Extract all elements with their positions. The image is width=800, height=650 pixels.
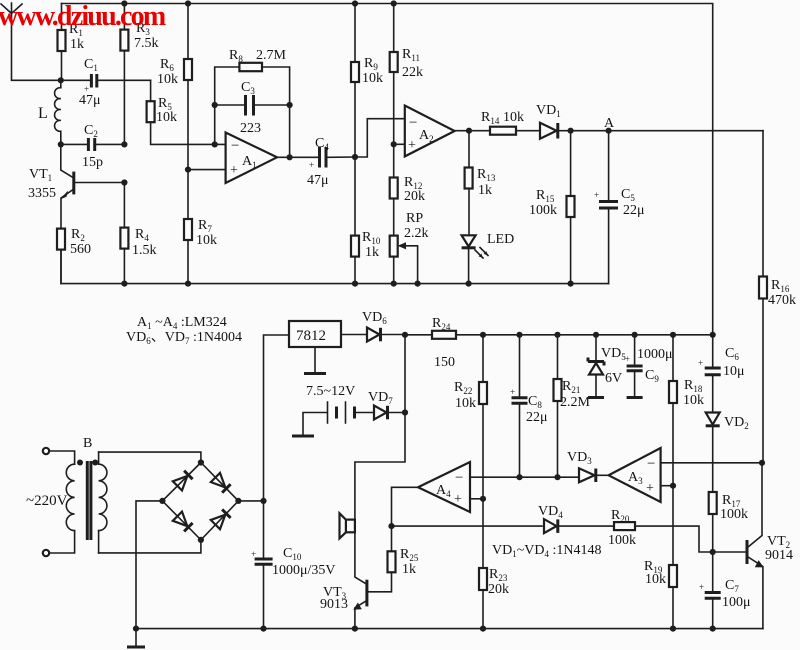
bridge rectifier xyxy=(159,459,241,543)
svg-text:1k: 1k xyxy=(365,245,379,260)
svg-text:10k: 10k xyxy=(455,396,476,411)
svg-text:+: + xyxy=(510,387,515,397)
node A3 plus xyxy=(670,483,676,489)
node rail C8 xyxy=(516,332,522,338)
resistor R15 xyxy=(529,131,575,284)
resistor R13 xyxy=(465,131,496,236)
wire secondary top to bridge xyxy=(99,452,201,462)
wire A3 plus input xyxy=(661,485,673,487)
svg-text:100k: 100k xyxy=(529,203,557,218)
node rail R18 xyxy=(670,332,676,338)
node rail VD5 xyxy=(593,332,599,338)
capacitor C5 xyxy=(594,131,645,284)
svg-text:+: + xyxy=(698,358,703,368)
node LED bottom xyxy=(466,281,472,287)
LED xyxy=(462,232,515,284)
svg-text:10k: 10k xyxy=(156,110,177,125)
wire secondary bottom to bridge xyxy=(99,540,201,553)
capacitor C8 xyxy=(510,335,548,477)
node R21 bottom xyxy=(554,474,560,480)
node A1 inverting feedback xyxy=(212,141,218,147)
node rail C7 xyxy=(710,626,716,632)
svg-text:9013: 9013 xyxy=(320,597,348,612)
node rail R19 xyxy=(670,626,676,632)
node top rail R3 xyxy=(121,0,127,6)
svg-text:1k: 1k xyxy=(402,562,416,577)
svg-text:560: 560 xyxy=(70,242,91,257)
diode VD4 xyxy=(538,504,563,533)
node C8 bottom xyxy=(516,474,522,480)
diode bridge top-left xyxy=(173,476,188,491)
node A4 plus xyxy=(480,496,486,502)
svg-text:+: + xyxy=(646,481,654,496)
transistor VT1 xyxy=(28,144,124,228)
svg-text:3355: 3355 xyxy=(28,186,56,201)
capacitor C3 xyxy=(215,80,290,136)
node C3 right xyxy=(287,102,293,108)
svg-text:−: − xyxy=(231,138,239,154)
svg-text:10k: 10k xyxy=(157,72,178,87)
svg-text:7.5k: 7.5k xyxy=(134,36,159,51)
svg-text:9014: 9014 xyxy=(765,548,793,563)
svg-text:6V: 6V xyxy=(605,371,622,386)
svg-text:22k: 22k xyxy=(402,65,423,80)
wire bottom mid rail xyxy=(61,249,609,283)
ground 7812 xyxy=(304,347,326,374)
node R15 bottom xyxy=(568,281,574,287)
node A3inv R16 VT2 collector xyxy=(759,460,765,466)
resistor R6 xyxy=(157,4,192,170)
node RP top bottomwire xyxy=(391,281,397,287)
node rail C6 xyxy=(710,332,716,338)
wire 7812 input from C10 line xyxy=(264,335,290,501)
resistor R4 xyxy=(120,183,156,284)
resistor R18 xyxy=(669,335,704,486)
node R17 C7 base wire xyxy=(710,549,716,555)
potentiometer RP xyxy=(390,211,429,284)
node C4-R9-R10-A2 xyxy=(352,154,358,160)
node rail R23 xyxy=(480,626,486,632)
svg-text:223: 223 xyxy=(240,121,261,136)
op-amp A1 xyxy=(188,133,277,184)
capacitor C1 xyxy=(61,57,151,108)
diode VD3 xyxy=(567,450,609,482)
svg-text:+: + xyxy=(230,163,238,178)
node R6-R7-A1plus xyxy=(185,167,191,173)
wire modulation line xyxy=(392,526,746,552)
svg-text:100μ: 100μ xyxy=(722,595,751,610)
svg-text:47μ: 47μ xyxy=(307,173,329,188)
resistor R7 xyxy=(184,170,217,284)
op-amp A4 xyxy=(418,462,470,512)
wire A3 inverting to R16 line xyxy=(661,462,762,464)
resistor R14 xyxy=(481,110,524,135)
svg-text:10μ: 10μ xyxy=(723,364,745,379)
diode bridge bottom-right xyxy=(211,515,226,530)
diode VD7 xyxy=(368,390,405,420)
wire unregulated to speaker xyxy=(355,335,405,520)
node rail C9 xyxy=(632,332,638,338)
resistor R3 xyxy=(120,4,158,145)
svg-text:B: B xyxy=(83,436,92,451)
transformer B xyxy=(26,436,107,556)
node VD6 out xyxy=(402,332,408,338)
node A xyxy=(606,128,612,134)
svg-text:+: + xyxy=(594,190,599,200)
diode VD6 xyxy=(341,310,405,342)
svg-text:22μ: 22μ xyxy=(623,203,645,218)
svg-text:1k: 1k xyxy=(478,183,492,198)
resistor R5 xyxy=(147,80,226,144)
svg-text:LED: LED xyxy=(487,232,514,247)
node A1 out feedback xyxy=(287,154,293,160)
wire A4 output xyxy=(392,487,419,526)
svg-text:RP: RP xyxy=(406,211,423,226)
capacitor C2 xyxy=(61,123,125,170)
node A4 out xyxy=(388,523,394,529)
svg-text:15p: 15p xyxy=(82,155,103,170)
wire bridge minus down xyxy=(136,501,162,629)
battery 7.5-12V xyxy=(292,384,374,436)
node A2 plus xyxy=(391,141,397,147)
transistor VT3 xyxy=(320,532,367,628)
svg-text:20k: 20k xyxy=(404,189,425,204)
resistor R8 feedback xyxy=(215,48,290,157)
capacitor C7 xyxy=(699,552,751,629)
node top rail R11 xyxy=(391,0,397,6)
svg-text:~220V: ~220V xyxy=(26,493,68,509)
node L-C2-VT1 xyxy=(58,141,64,147)
resistor R1 xyxy=(58,4,85,81)
svg-text:20k: 20k xyxy=(488,582,509,597)
resistor R21 xyxy=(554,335,591,477)
wire A4 inverting input xyxy=(470,476,579,478)
resistor R24 xyxy=(432,316,456,370)
diode bridge top-right xyxy=(211,473,226,488)
capacitor C10 xyxy=(251,501,336,629)
node bridge C10 xyxy=(260,498,266,504)
wire bottom rail xyxy=(136,628,763,630)
svg-text:+: + xyxy=(454,492,462,507)
resistor R16 xyxy=(759,131,796,463)
resistor R9 xyxy=(351,4,383,158)
svg-text:10k: 10k xyxy=(683,393,704,408)
svg-text:10k: 10k xyxy=(645,572,666,587)
svg-text:10k: 10k xyxy=(362,71,383,86)
ground main xyxy=(127,629,145,647)
wire A4 plus input xyxy=(470,498,483,500)
node bottomwire R4 xyxy=(121,281,127,287)
node rail R22 xyxy=(480,332,486,338)
svg-text:470k: 470k xyxy=(768,293,796,308)
svg-text:−: − xyxy=(409,115,417,131)
op-amp A3 xyxy=(609,448,661,502)
svg-text:22μ: 22μ xyxy=(526,410,548,425)
wire +12V rail xyxy=(405,334,713,336)
inductor L xyxy=(38,80,61,144)
svg-text:10k: 10k xyxy=(503,110,524,125)
node VT1 base - R3R4 line xyxy=(121,179,127,185)
zener VD5 xyxy=(588,335,626,398)
node RP wiper bottom xyxy=(415,281,421,287)
diode VD1 xyxy=(536,103,561,139)
svg-text:1.5k: 1.5k xyxy=(132,243,157,258)
diode VD2 xyxy=(706,413,749,493)
svg-text:1k: 1k xyxy=(70,37,84,52)
resistor R20 xyxy=(608,508,636,548)
svg-text:A: A xyxy=(604,116,615,131)
svg-text:VD6、VD7 :1N4004: VD6、VD7 :1N4004 xyxy=(126,330,242,346)
node rail C10 xyxy=(260,626,266,632)
svg-text:L: L xyxy=(38,105,48,122)
svg-text:+: + xyxy=(251,549,256,559)
capacitor C9 xyxy=(625,335,673,398)
svg-text:2.2M: 2.2M xyxy=(560,395,591,410)
svg-text:+: + xyxy=(699,582,704,592)
resistor R23 xyxy=(479,499,509,629)
resistor R12 xyxy=(390,144,425,235)
svg-text:2.2k: 2.2k xyxy=(404,226,429,241)
regulator U 7812 xyxy=(289,321,341,347)
svg-text:7812: 7812 xyxy=(296,328,326,344)
capacitor C6 xyxy=(698,335,745,412)
svg-text:10k: 10k xyxy=(196,233,217,248)
transistor VT2 xyxy=(747,463,793,629)
resistor R19 xyxy=(644,486,677,629)
resistor R10 xyxy=(351,157,381,284)
capacitor C4 xyxy=(277,136,355,188)
svg-text:+: + xyxy=(625,354,630,364)
svg-text:1000μ: 1000μ xyxy=(637,347,673,362)
node rail left end xyxy=(133,626,139,632)
svg-text:100k: 100k xyxy=(720,507,748,522)
resistor R11 xyxy=(390,4,423,145)
wire A2 inverting jog xyxy=(355,119,405,157)
svg-text:47μ: 47μ xyxy=(79,93,101,108)
svg-text:+: + xyxy=(309,160,314,170)
antenna xyxy=(1,3,22,13)
resistor R25 xyxy=(368,526,419,592)
svg-text:−: − xyxy=(647,456,655,472)
node C3 left xyxy=(212,102,218,108)
node VT3 emitter rail xyxy=(352,626,358,632)
svg-text:150: 150 xyxy=(434,355,455,370)
op-amp A2 xyxy=(394,106,455,157)
svg-text:100k: 100k xyxy=(608,533,636,548)
node top rail R6 xyxy=(185,0,191,6)
node C1-L-R1 xyxy=(58,77,64,83)
wire bridge plus to C10 xyxy=(238,500,263,502)
wire antenna drop to C1 node xyxy=(12,13,61,80)
svg-text:1000μ/35V: 1000μ/35V xyxy=(272,563,336,578)
node R15 top xyxy=(568,128,574,134)
node VD7 out xyxy=(402,409,408,415)
svg-text:−: − xyxy=(455,470,463,486)
wire A2 output line xyxy=(455,130,763,132)
resistor R2 xyxy=(57,227,91,284)
node rail R21 xyxy=(554,332,560,338)
wire top rail xyxy=(62,4,713,335)
node R10 bottom xyxy=(352,281,358,287)
node bottomwire R7 xyxy=(185,281,191,287)
node top rail R9 xyxy=(352,0,358,6)
svg-text:2.7M: 2.7M xyxy=(256,48,287,63)
resistor R17 xyxy=(709,492,748,552)
svg-text:+: + xyxy=(408,138,416,153)
svg-text:7.5~12V: 7.5~12V xyxy=(306,384,355,399)
node C2-R3R4 xyxy=(121,141,127,147)
diode bridge bottom-left xyxy=(173,512,188,526)
svg-text:www.dziuu.com: www.dziuu.com xyxy=(0,1,166,32)
node A2out R13 xyxy=(466,128,472,134)
resistor R22 xyxy=(454,335,487,499)
speaker xyxy=(340,513,355,538)
